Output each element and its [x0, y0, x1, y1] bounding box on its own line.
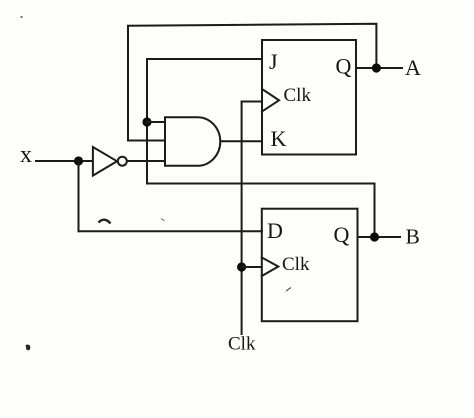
wire x input	[36, 160, 92, 162]
junction node A	[372, 63, 381, 72]
wire x node down	[78, 161, 80, 231]
wire J input	[147, 58, 262, 60]
svg-text:x: x	[20, 142, 32, 168]
wire J net vertical	[146, 59, 148, 184]
wire x to D input	[79, 230, 263, 232]
flip-flop JK box	[262, 40, 356, 155]
wire AND output to K input	[220, 140, 262, 142]
junction x node	[74, 156, 83, 165]
wire Q to B node	[358, 236, 401, 238]
wire B feedback horizontal	[147, 183, 375, 185]
AND gate	[165, 117, 220, 166]
junction clk node	[237, 262, 246, 271]
svg-text:Clk: Clk	[284, 85, 312, 106]
wire A feedback (up over top into AND input 2)	[128, 24, 376, 141]
scan speck tick near D wire right	[161, 219, 165, 221]
svg-text:Clk: Clk	[228, 334, 256, 355]
svg-text:D: D	[267, 218, 283, 243]
flip-flop D box	[262, 209, 358, 322]
svg-text:A: A	[405, 55, 421, 80]
inverter NOT gate	[93, 147, 117, 176]
junction node on AND input 1	[142, 117, 151, 126]
svg-text:J: J	[269, 49, 278, 74]
clock edge triangle (JK)	[262, 89, 279, 112]
junction node B	[370, 232, 379, 241]
svg-text:Q: Q	[336, 54, 352, 79]
svg-text:Clk: Clk	[282, 254, 310, 275]
wire B feedback down to B node	[374, 184, 376, 234]
wire inverter output to AND input 3	[127, 160, 165, 162]
clock edge triangle (D flip-flop)	[262, 258, 279, 277]
inverter bubble	[118, 157, 127, 166]
scan speck inside D flip-flop	[286, 288, 291, 292]
svg-text:B: B	[406, 225, 420, 249]
wire junction to AND input 1	[147, 121, 165, 123]
svg-text:K: K	[271, 126, 287, 151]
scan speck blob lower left	[27, 345, 30, 349]
wire clk vertical	[241, 102, 243, 335]
wire clk to D flip-flop	[242, 266, 262, 268]
svg-text:Q: Q	[334, 222, 350, 247]
scan speck arc above D wire	[99, 220, 111, 224]
scan speck dot top left	[20, 16, 22, 18]
wire Q to A node	[356, 67, 402, 69]
wire clk to JK	[242, 101, 262, 103]
